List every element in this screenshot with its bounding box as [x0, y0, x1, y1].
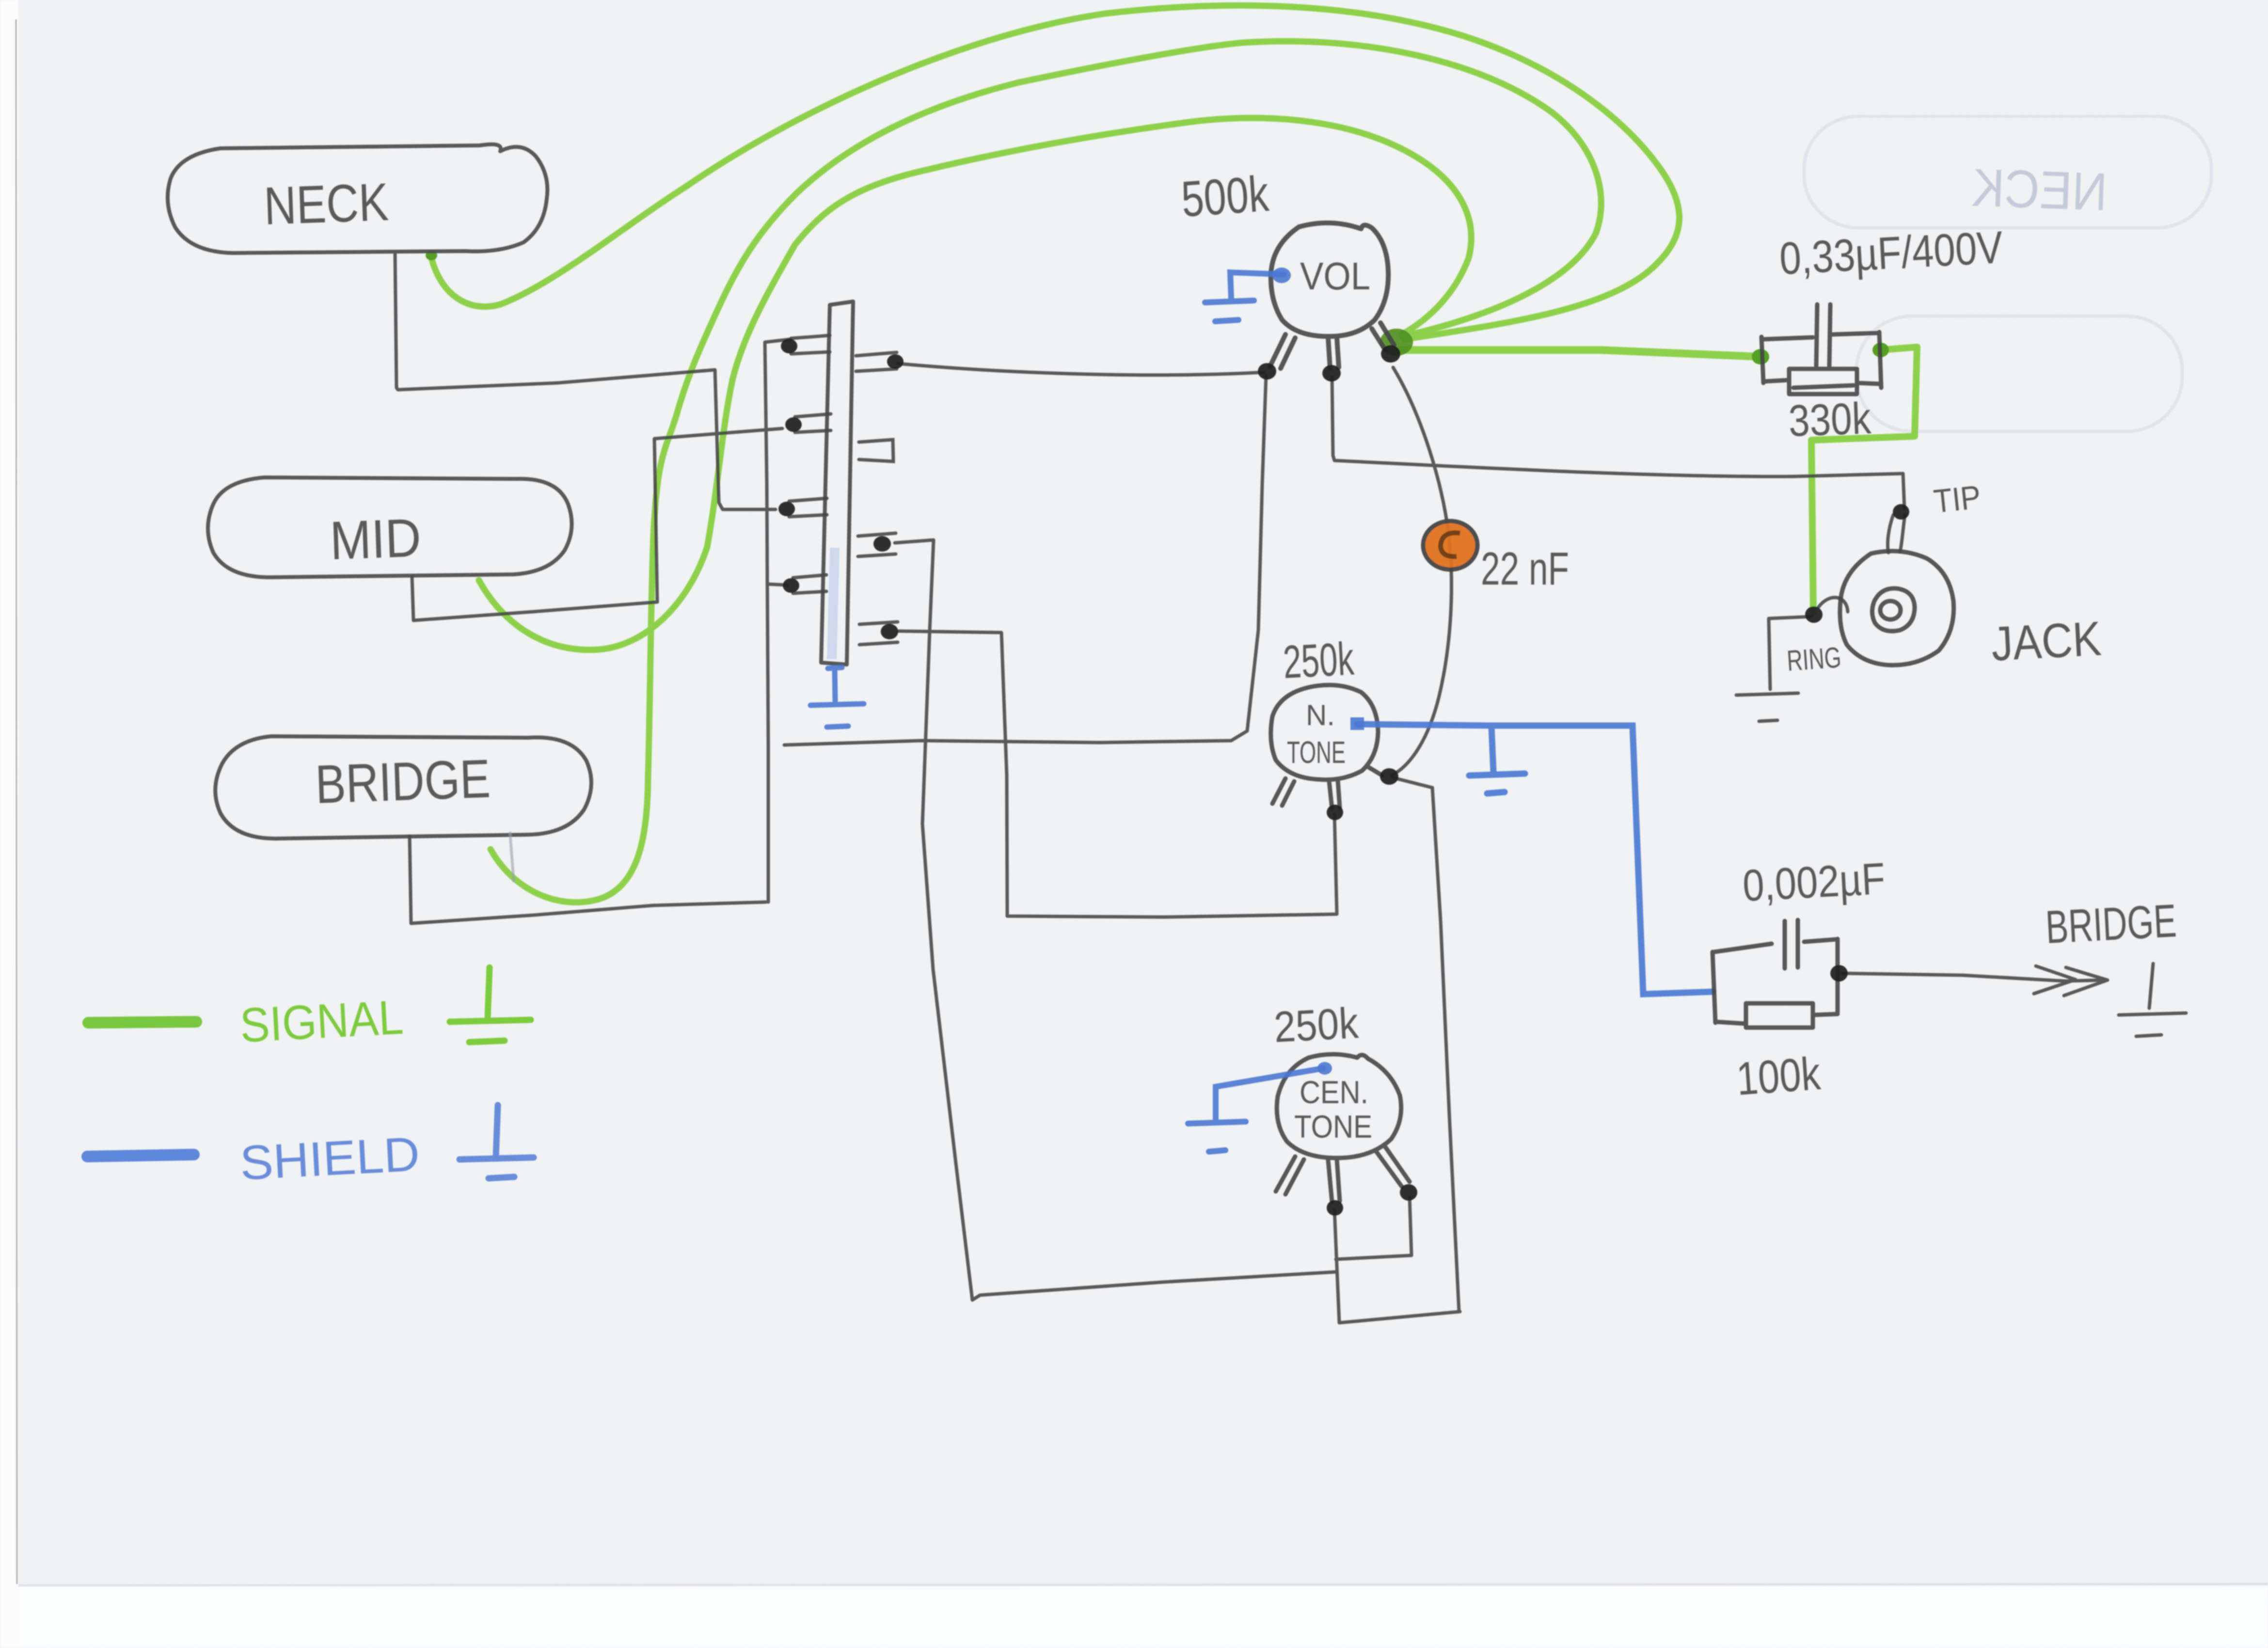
svg-text:250k: 250k	[1282, 633, 1355, 688]
svg-text:MID: MID	[329, 507, 422, 571]
svg-text:0,002µF: 0,002µF	[1742, 854, 1887, 911]
svg-text:TONE: TONE	[1287, 735, 1346, 770]
svg-text:SIGNAL: SIGNAL	[238, 990, 404, 1052]
svg-text:BRIDGE: BRIDGE	[314, 748, 491, 815]
svg-text:TIP: TIP	[1932, 478, 1983, 520]
svg-text:BRIDGE: BRIDGE	[2044, 895, 2177, 953]
svg-text:NECK: NECK	[1971, 158, 2108, 222]
svg-text:TONE: TONE	[1294, 1109, 1372, 1144]
svg-text:250k: 250k	[1273, 999, 1360, 1052]
svg-text:RING: RING	[1786, 641, 1842, 677]
svg-text:330k: 330k	[1788, 394, 1872, 446]
svg-text:500k: 500k	[1180, 166, 1271, 228]
svg-text:CEN.: CEN.	[1300, 1074, 1368, 1110]
svg-text:N.: N.	[1306, 699, 1335, 731]
svg-text:NECK: NECK	[263, 172, 390, 236]
svg-text:SHIELD: SHIELD	[238, 1127, 421, 1190]
svg-text:JACK: JACK	[1990, 611, 2103, 671]
svg-text:100k: 100k	[1735, 1047, 1823, 1105]
svg-text:22 nF: 22 nF	[1481, 543, 1569, 595]
svg-text:VOL: VOL	[1300, 254, 1370, 298]
